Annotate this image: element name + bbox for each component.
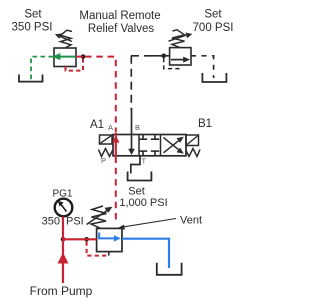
pilot line dashed B1 branch horizontal — [131, 55, 151, 57]
label Manual Remote Relief Valves — [79, 10, 160, 35]
relief valve RV2 adjustment arrow — [169, 33, 193, 42]
svg-text:700 PSI: 700 PSI — [193, 22, 234, 34]
pilot line red dashed drain loop RV1 — [66, 59, 84, 71]
svg-text:Vent: Vent — [180, 215, 202, 227]
directional valve DV1 box2 blocked ports — [139, 135, 159, 156]
node J3 pump line junction — [61, 237, 66, 242]
directional valve DV1 right spring — [186, 149, 200, 157]
node J2 junction dot — [161, 54, 166, 59]
node J4 relief inlet junction — [84, 237, 89, 242]
svg-text:A: A — [108, 123, 113, 132]
relief valve RV2 spring — [172, 30, 185, 48]
relief valve RV1 adjustment arrow — [55, 34, 72, 42]
wire T port to tank — [131, 156, 140, 174]
svg-text:Manual Remote: Manual Remote — [79, 10, 160, 22]
wire red pump supply line — [62, 217, 64, 284]
directional valve DV1 box1 B-to-T path — [128, 108, 135, 155]
svg-text:A1: A1 — [90, 119, 104, 131]
pilot line dashed B1 branch vertical — [130, 56, 132, 110]
label 350 PSI (gauge) — [42, 216, 84, 228]
flow arrow pump supply — [58, 253, 69, 264]
tank T1 (left) — [19, 75, 43, 82]
directional valve DV1 box3 crossed arrows — [164, 137, 184, 154]
tank T3 (valve return) — [128, 172, 152, 181]
wire RV2 inlet — [150, 55, 170, 57]
svg-text:Set: Set — [128, 186, 145, 198]
relief valve RV1 spring — [61, 30, 73, 48]
svg-text:350: 350 — [42, 216, 60, 228]
svg-text:PSI: PSI — [66, 216, 84, 228]
svg-text:From Pump: From Pump — [30, 284, 93, 298]
pressure gauge PG1 — [55, 199, 73, 217]
main relief valve RV3 body — [97, 228, 122, 251]
relief valve RV1 flow arrow (green) — [52, 53, 76, 60]
relief valve RV2 flow arrow — [171, 57, 190, 63]
wire red pump to relief inlet — [63, 238, 97, 240]
svg-text:B: B — [135, 123, 140, 132]
node J1 junction dot — [81, 54, 86, 59]
wire red RV1 outlet to node J1 — [76, 56, 83, 58]
wire blue relief outlet to tank — [122, 239, 169, 268]
main relief valve RV3 flow arrow (blue) — [99, 233, 121, 242]
directional valve DV1 left solenoid — [100, 135, 113, 144]
tank T2 (right) — [202, 73, 226, 82]
directional valve DV1 right solenoid — [186, 135, 199, 146]
main relief valve RV3 spring — [91, 206, 107, 228]
svg-text:Set: Set — [24, 9, 42, 21]
relief valve RV1 350 PSI body — [54, 48, 76, 67]
svg-text:Set: Set — [204, 9, 222, 21]
relief valve RV2 700 PSI body — [170, 48, 191, 65]
pilot line green dashed to tank — [31, 57, 53, 80]
pilot line red dashed below valve to vent — [115, 157, 117, 223]
directional valve DV1 envelope — [113, 135, 186, 156]
svg-text:350 PSI: 350 PSI — [12, 22, 53, 34]
leader line vent arrow — [117, 219, 177, 230]
svg-text:1,000 PSI: 1,000 PSI — [119, 197, 167, 209]
svg-text:T: T — [142, 157, 147, 166]
flow path red P-to-A through valve — [112, 133, 119, 157]
pilot line dashed RV2 outlet to tank — [191, 56, 214, 78]
pilot line dashed drain loop RV2 — [164, 58, 180, 69]
pilot line red dashed drain loop RV3 — [87, 242, 109, 256]
main relief valve RV3 adjustment arrow — [87, 207, 113, 225]
tank T4 (relief return) — [157, 263, 182, 275]
svg-text:B1: B1 — [198, 118, 212, 130]
svg-text:Relief Valves: Relief Valves — [88, 23, 155, 35]
directional valve DV1 left spring — [99, 149, 113, 157]
pilot line red dashed J1 to node A riser — [85, 57, 116, 133]
